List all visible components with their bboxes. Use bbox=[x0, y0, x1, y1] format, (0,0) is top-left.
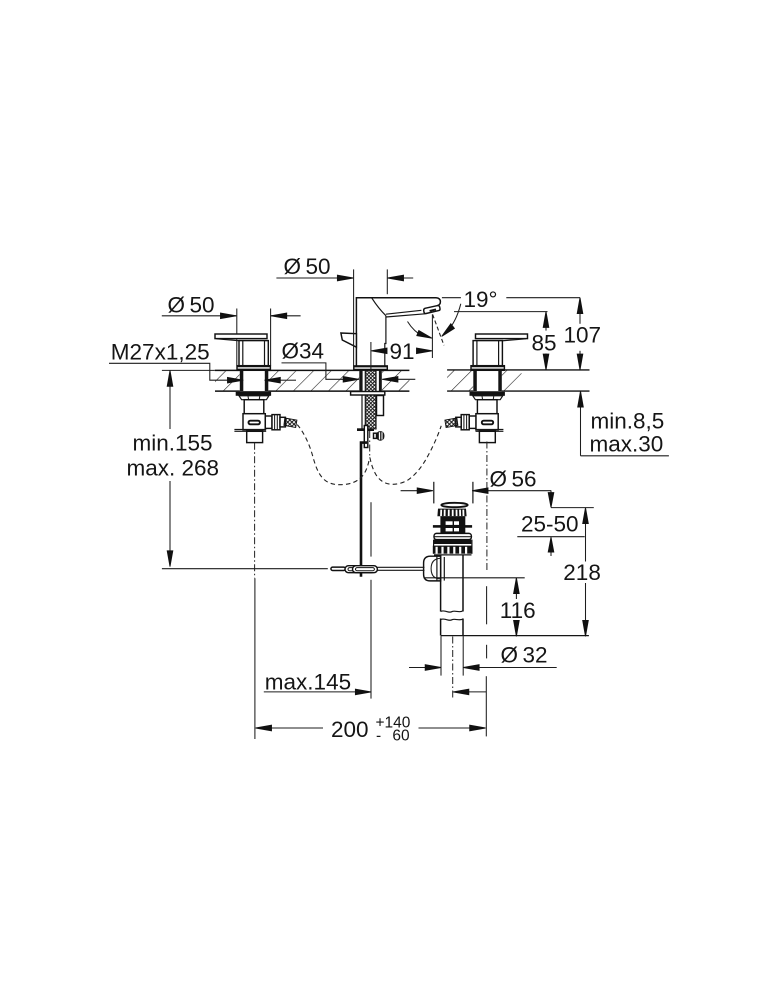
dimension Ø50 left: lines and arrows bbox=[162, 313, 301, 319]
svg-text:25-50: 25-50 bbox=[521, 512, 579, 537]
svg-text:max.30: max.30 bbox=[590, 432, 664, 457]
pop-up cage section bbox=[433, 516, 472, 533]
svg-text:Ø 50: Ø 50 bbox=[168, 293, 215, 318]
svg-text:107: 107 bbox=[564, 323, 602, 348]
19° left arc with arrow bbox=[408, 322, 432, 339]
faucet side lever bbox=[341, 333, 357, 347]
left valve bottom flange bbox=[234, 430, 266, 432]
drain tailpipe with break bbox=[441, 611, 463, 636]
right valve lever blade bbox=[476, 334, 528, 341]
rod adjustment link ovals bbox=[345, 566, 377, 573]
left valve side-outlet block bbox=[243, 414, 265, 430]
dimension 25-50 bbox=[517, 490, 594, 556]
svg-text:200: 200 bbox=[331, 717, 369, 742]
dimension 91: arrows and label bbox=[371, 339, 432, 364]
left supply hose bbox=[297, 425, 369, 485]
faucet body outline bbox=[356, 298, 440, 366]
rod left stub bbox=[331, 567, 345, 570]
svg-text:Ø 56: Ø 56 bbox=[490, 467, 537, 492]
pop-up rod clamp knob bbox=[374, 431, 385, 441]
svg-text:Ø 32: Ø 32 bbox=[501, 642, 548, 667]
svg-text:max. 268: max. 268 bbox=[127, 456, 220, 481]
left valve hole edges in deck bbox=[240, 370, 268, 391]
19° label and reference lines bbox=[442, 287, 580, 312]
pop-up drain top cylinder bbox=[434, 482, 473, 504]
left valve body bbox=[239, 341, 268, 366]
right valve outlet collar bbox=[456, 417, 461, 427]
faucet hole edges in deck bbox=[359, 370, 382, 391]
faucet base plate bbox=[354, 366, 388, 370]
M27x1,25 label and leader bbox=[109, 340, 296, 384]
pop-up ring ledge bbox=[434, 533, 471, 539]
right valve lower cylinder bbox=[479, 431, 495, 442]
right valve outlet hex nut bbox=[461, 415, 476, 430]
faucet threaded shank (crosshatched) bbox=[365, 370, 376, 429]
pop-up rod clamp bar bbox=[357, 428, 374, 431]
right valve escutcheon bbox=[471, 366, 504, 371]
svg-text:min.8,5: min.8,5 bbox=[591, 409, 665, 434]
left valve centerline bbox=[254, 443, 256, 579]
dimension min.8,5 max.30 bbox=[578, 391, 669, 456]
dimension 200 +140/-60 bbox=[256, 676, 487, 744]
faucet mounting stud bbox=[377, 396, 384, 416]
faucet shank sleeve lines bbox=[362, 370, 380, 429]
pop-up plug lid bbox=[441, 503, 467, 507]
left valve lower cylinder bbox=[247, 431, 263, 442]
dimension 107 bbox=[564, 298, 602, 370]
dimension Ø32 bbox=[409, 636, 557, 676]
drain centerline below pipe bbox=[452, 637, 454, 700]
min/max bottom reference line (rod level) bbox=[162, 568, 328, 570]
right valve body bbox=[473, 341, 502, 366]
dimension 116 bbox=[500, 578, 536, 637]
left valve escutcheon bbox=[237, 366, 270, 371]
dimension max.145 bbox=[264, 502, 487, 698]
pop-up plug ribbed cone bbox=[437, 509, 466, 517]
svg-text:116: 116 bbox=[500, 598, 536, 623]
counter deck top line (with min.155 reference extension to the left) bbox=[162, 369, 590, 372]
right valve side-outlet block bbox=[476, 414, 498, 430]
dimension Ø50 left: extension lines bbox=[237, 309, 271, 366]
dimension Ø50 top: lines and arrows bbox=[276, 275, 413, 281]
left valve locknut below deck bbox=[236, 392, 271, 400]
dimension min.155 max.268 bbox=[127, 371, 220, 567]
right valve locknut below deck bbox=[470, 392, 505, 400]
svg-text:19°: 19° bbox=[464, 287, 498, 312]
right valve braided hose end bbox=[445, 418, 458, 428]
dimension Ø50 top: extension lines bbox=[354, 269, 388, 365]
svg-text:-: - bbox=[376, 728, 381, 745]
svg-text:min.155: min.155 bbox=[133, 431, 213, 456]
left valve braided hose end bbox=[284, 418, 297, 428]
dimension 218 bbox=[563, 508, 601, 637]
drain body bbox=[441, 555, 463, 612]
svg-text:218: 218 bbox=[563, 560, 601, 585]
right valve hole edges in deck bbox=[473, 370, 502, 391]
svg-text:M27x1,25: M27x1,25 bbox=[111, 340, 210, 365]
pop-up grooved flange bbox=[433, 546, 473, 555]
19° right arc with arrow bbox=[442, 304, 461, 337]
horizontal pop-up actuating rod bbox=[375, 567, 425, 570]
faucet mounting bracket plate bbox=[351, 392, 385, 396]
drain ball-rod nut bbox=[424, 556, 441, 581]
svg-text:60: 60 bbox=[392, 728, 410, 745]
dimension 85 bbox=[532, 312, 557, 370]
svg-text:85: 85 bbox=[532, 331, 557, 356]
counter deck bottom line bbox=[215, 390, 590, 392]
tailpipe end line and 218/116 bottom reference bbox=[441, 635, 589, 637]
svg-text:max.145: max.145 bbox=[265, 670, 351, 695]
dimension Ø56 bbox=[401, 467, 551, 494]
dimension 91: extension lines bbox=[371, 314, 433, 370]
counter deck hatching bbox=[215, 370, 522, 390]
pop-up stack side edges bbox=[434, 540, 472, 554]
left valve upper cylinder bbox=[244, 400, 264, 414]
faucet centerline bbox=[369, 431, 371, 457]
pop-up rod clamp tab bbox=[364, 426, 368, 448]
svg-text:Ø 50: Ø 50 bbox=[284, 254, 331, 279]
svg-text:Ø34: Ø34 bbox=[282, 339, 325, 364]
pop-up dark ring bbox=[434, 540, 472, 544]
drain body joint line and 116 reference bbox=[424, 577, 525, 579]
left valve outlet collar bbox=[280, 417, 285, 427]
right supply hose bbox=[370, 426, 441, 485]
right valve bottom flange bbox=[476, 430, 504, 432]
left valve lever blade bbox=[215, 334, 267, 341]
pop-up vertical rod bbox=[361, 443, 367, 577]
right valve upper cylinder bbox=[477, 400, 497, 414]
right valve centerline bbox=[486, 442, 488, 571]
faucet aerator bbox=[424, 306, 440, 314]
19° jet angle dashed line bbox=[433, 315, 444, 346]
left valve outlet hex nut bbox=[265, 415, 280, 430]
Ø34 label and leader bbox=[282, 339, 416, 383]
svg-text:91: 91 bbox=[390, 339, 415, 364]
